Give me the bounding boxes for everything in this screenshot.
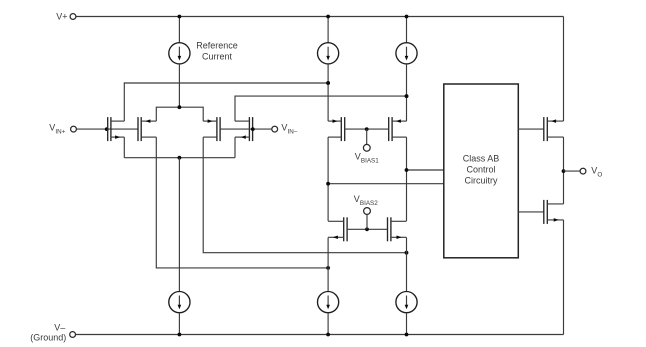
- transistor Q7 lower cascode left: [328, 217, 347, 291]
- V- power rail: [76, 334, 564, 336]
- VIN+ terminal: [49, 123, 76, 136]
- transistor Q10 output NMOS: [544, 171, 564, 334]
- transistor Q9 output PMOS: [544, 17, 564, 172]
- VBIAS1 gate node and terminal: [345, 127, 389, 164]
- wire VIN+ to Q1 Q2 gates: [76, 127, 138, 131]
- svg-text:Current: Current: [202, 52, 233, 62]
- wire I3 to Q6 source: [405, 64, 409, 121]
- current source I5: [318, 292, 339, 337]
- svg-text:BIAS2: BIAS2: [360, 200, 378, 207]
- current source I1 reference: [169, 15, 190, 108]
- wire Q4 drain to I3 output node: [235, 94, 408, 121]
- svg-text:Circuitry: Circuitry: [465, 176, 498, 186]
- VBIAS2 gate node and terminal: [347, 194, 387, 231]
- node outer pair common source rail: [124, 156, 235, 292]
- current source I2: [318, 15, 339, 64]
- svg-text:BIAS1: BIAS1: [361, 157, 379, 164]
- transistor Q3 inner-right input: [203, 117, 220, 141]
- V+ power rail: [76, 16, 564, 18]
- wire Q6 drain to Class AB box: [405, 168, 444, 172]
- wire Q3 drain to I6 node: [203, 137, 408, 255]
- transistor Q5 cascode left: [328, 117, 345, 221]
- wire VIN- to Q3 Q4 gates: [220, 127, 272, 131]
- VIN- terminal: [272, 123, 298, 136]
- svg-text:V–: V–: [54, 322, 65, 332]
- svg-text:Reference: Reference: [196, 41, 238, 51]
- label Reference Current: [196, 41, 238, 62]
- wire Q1 drain to I2 output node: [124, 81, 330, 121]
- current source I4: [169, 292, 190, 337]
- Class AB Control Circuitry box: [444, 84, 519, 258]
- node inner pair common source rail: [156, 105, 203, 121]
- transistor Q8 lower cascode right: [388, 217, 407, 291]
- wire box to Q9 gate: [518, 128, 544, 130]
- V- (Ground) terminal: [30, 322, 75, 342]
- svg-text:Control: Control: [466, 165, 495, 175]
- transistor Q1 outer-left input: [108, 117, 125, 158]
- V+ terminal: [56, 12, 76, 22]
- transistor Q2 inner-left input: [138, 117, 156, 141]
- svg-text:(Ground): (Ground): [30, 333, 66, 343]
- svg-text:O: O: [597, 172, 602, 179]
- wire I2 to Q5 source: [326, 64, 330, 121]
- output node VO: [562, 166, 603, 179]
- wire Q2 drain to I5 node: [156, 137, 330, 270]
- transistor Q6 cascode right: [389, 117, 407, 221]
- svg-text:Class AB: Class AB: [463, 154, 500, 164]
- svg-text:IN+: IN+: [55, 129, 65, 136]
- transistor Q4 outer-right input: [235, 117, 253, 158]
- current source I3: [396, 15, 417, 64]
- svg-text:IN–: IN–: [288, 129, 298, 136]
- current source I6: [396, 292, 417, 337]
- wire Q5 drain to Class AB box: [326, 182, 444, 186]
- svg-text:V: V: [281, 123, 287, 133]
- svg-text:V+: V+: [56, 12, 67, 22]
- wire box to Q10 gate: [518, 211, 544, 213]
